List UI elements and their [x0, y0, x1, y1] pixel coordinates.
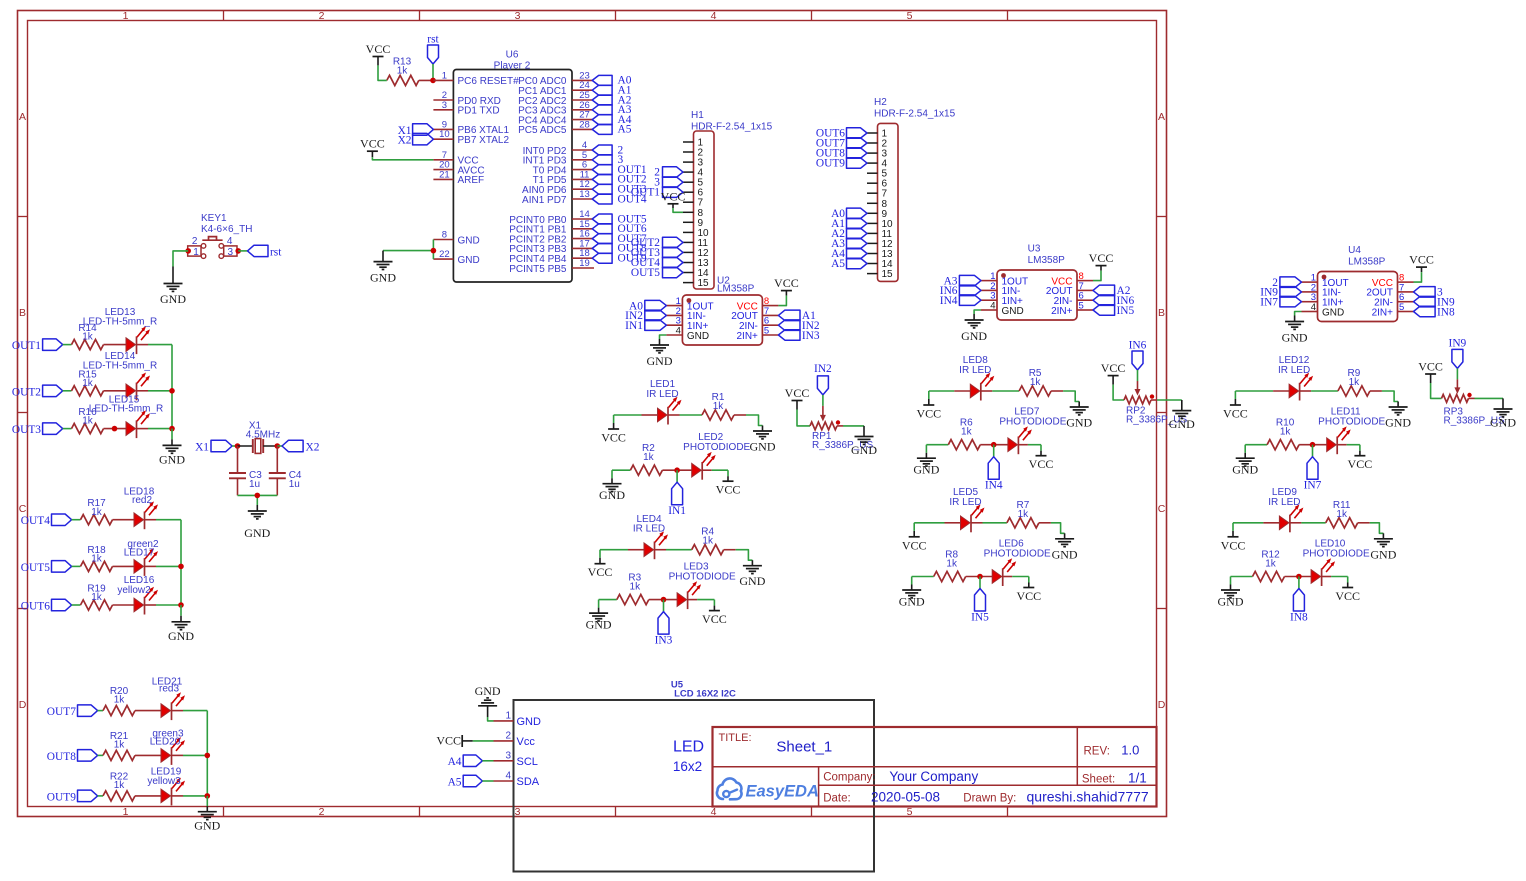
svg-text:VCC: VCC [1223, 407, 1248, 421]
svg-text:H2: H2 [874, 97, 887, 108]
wire R6 to LED7 [980, 444, 1008, 446]
svg-text:A5: A5 [618, 124, 632, 136]
ground at RP3 [1490, 398, 1516, 429]
svg-text:OUT9: OUT9 [47, 791, 76, 803]
wire green2 to bus [145, 565, 157, 567]
svg-text:GND: GND [1169, 417, 1195, 431]
svg-text:1: 1 [505, 710, 511, 721]
port A3 at U3 [944, 275, 981, 287]
svg-text:15: 15 [882, 269, 894, 280]
svg-text:1k: 1k [91, 507, 103, 518]
wire VCC to H1 pin 8 [673, 208, 683, 212]
port IN8 [1290, 589, 1308, 624]
wire RP3 to ground [1469, 397, 1475, 399]
svg-text:A5: A5 [448, 776, 462, 788]
svg-text:IN4: IN4 [985, 480, 1003, 492]
resistor R8 1k [934, 550, 966, 582]
wire OUT2 to R15 [63, 390, 72, 392]
svg-text:VCC: VCC [902, 538, 927, 552]
resistor R13 1k [387, 57, 436, 86]
svg-text:VCC: VCC [716, 483, 741, 497]
ground at OUT1-3 group [171, 429, 173, 440]
power VCC at LED1 row [601, 423, 626, 445]
svg-text:5: 5 [907, 806, 913, 818]
border frame [18, 10, 1167, 818]
wire U4 pin 4 to ground [1295, 312, 1302, 316]
svg-text:IR LED: IR LED [959, 365, 991, 376]
ground at R2 row [599, 478, 625, 502]
wire RP1 to ground [837, 425, 843, 427]
svg-text:GND: GND [1385, 416, 1411, 430]
potentiometer RP1 R_3386P_US [810, 420, 873, 451]
svg-text:GND: GND [159, 452, 185, 466]
svg-text:1k: 1k [397, 66, 409, 77]
junction bus OUT9 [205, 793, 211, 799]
svg-text:LED-TH-5mm_R: LED-TH-5mm_R [89, 404, 163, 415]
svg-text:VCC: VCC [1409, 253, 1434, 267]
svg-text:2: 2 [319, 10, 325, 22]
svg-text:GND: GND [244, 526, 270, 540]
svg-text:10: 10 [439, 129, 450, 140]
power VCC at RP1 [785, 386, 810, 410]
svg-text:1k: 1k [1280, 427, 1292, 438]
resistor R15 1k [72, 369, 104, 396]
U6 right pins [509, 70, 594, 274]
wire OUT7 to R20 [98, 710, 103, 712]
power VCC at LED8 row [916, 399, 941, 421]
wire A5 to U5 pin 4 [482, 780, 493, 782]
LED LED18 [124, 487, 158, 530]
port IN2 at U2 [625, 310, 666, 322]
svg-text:LM358P: LM358P [717, 284, 755, 295]
svg-text:1k: 1k [91, 592, 103, 603]
svg-text:X2: X2 [306, 442, 320, 454]
U6 left pins [433, 70, 519, 266]
port A5 at H2 [831, 258, 867, 270]
svg-text:OUT1: OUT1 [631, 187, 660, 199]
wire bus OUT4-OUT6 [180, 520, 182, 605]
port A4 at U6 [592, 114, 632, 126]
crystal X1 4.5MHz [238, 421, 281, 454]
port OUT5 at H1 [631, 267, 683, 279]
svg-text:PHOTODIODE: PHOTODIODE [984, 549, 1051, 560]
svg-text:VCC: VCC [1016, 589, 1041, 603]
port A1 at H2 [831, 218, 867, 230]
svg-text:1k: 1k [1030, 377, 1042, 388]
wire R12 to LED10 [1285, 576, 1312, 578]
svg-text:LCD 16X2 I2C: LCD 16X2 I2C [674, 689, 736, 700]
wire LED1 to R1 [668, 414, 680, 416]
power VCC at LED10 [1335, 583, 1360, 604]
port OUT6 [21, 599, 72, 612]
port OUT1 at H1 [631, 187, 683, 199]
resistor R19 1k [81, 584, 113, 611]
port OUT2 at H1 [631, 237, 683, 249]
svg-text:VCC: VCC [1335, 589, 1360, 603]
wire R22 to LED19 [135, 795, 161, 797]
wire junction to port IN3 [663, 600, 665, 612]
svg-text:C: C [1158, 503, 1166, 515]
power VCC at U6 pin 7 [360, 137, 385, 158]
potentiometer RP2 R_3386P_US [1124, 394, 1187, 425]
svg-text:VCC: VCC [1348, 457, 1373, 471]
ground at R12 row [1218, 585, 1244, 609]
svg-text:LED17: LED17 [124, 548, 155, 559]
wire LED8 to R5 [981, 390, 993, 392]
junction at KEY1 pin 3 [235, 248, 241, 254]
power VCC at LED11 [1348, 451, 1373, 472]
svg-text:1k: 1k [114, 739, 126, 750]
svg-text:5: 5 [907, 10, 913, 22]
module U5 LCD 16X2 I2C [494, 679, 875, 871]
resistor R1 1k [702, 392, 734, 420]
wire R3 to LED3 [649, 599, 677, 601]
photodiode LED10 [1303, 539, 1370, 587]
ground at R10 row [1232, 453, 1258, 477]
wire bus OUT1-OUT3 [171, 345, 173, 429]
svg-text:GND: GND [458, 255, 480, 266]
svg-text:IR LED: IR LED [1268, 497, 1300, 508]
resistor R20 1k [103, 686, 135, 716]
wire LED10 to VCC [1322, 576, 1332, 578]
junction at IN7 [1310, 442, 1316, 448]
svg-text:GND: GND [458, 235, 480, 246]
svg-text:1: 1 [193, 247, 199, 258]
svg-text:LED20: LED20 [150, 737, 181, 748]
wire LED2 to VCC [702, 469, 712, 471]
ground at OUT7-9 group [206, 796, 208, 806]
junction at crystal pin 1 [235, 443, 241, 449]
svg-text:GND: GND [1066, 416, 1092, 430]
svg-text:IR LED: IR LED [633, 524, 665, 535]
svg-text:1k: 1k [91, 554, 103, 565]
port A3 at U6 [592, 104, 632, 116]
photodiode LED7 [999, 407, 1066, 455]
port IN9 at U4 [1260, 287, 1301, 299]
svg-text:3: 3 [515, 10, 521, 22]
svg-text:C: C [19, 503, 27, 515]
junction at KEY1 pin 1 [185, 248, 191, 254]
LED LED1 IR LED [646, 379, 681, 424]
port OUT8 at U6 [592, 243, 647, 255]
port OUT7 [47, 705, 98, 718]
port OUT7 at U6 [592, 233, 647, 245]
power VCC at LED5 row [902, 531, 927, 553]
svg-text:A5: A5 [831, 258, 845, 270]
svg-text:1k: 1k [82, 416, 94, 427]
LED LED19 [147, 767, 185, 806]
LED LED5 IR LED [949, 487, 984, 532]
wire green3 to bus [172, 754, 184, 756]
junction bus OUT3 [169, 426, 175, 432]
port rst at KEY1 [248, 245, 283, 258]
wire LED9 to R11 [1290, 522, 1302, 524]
resistor R4 1k [692, 527, 724, 555]
wire OUT8 to R21 [98, 754, 103, 756]
wire OUT4 to R17 [72, 519, 81, 521]
svg-text:GND: GND [1052, 547, 1078, 561]
svg-text:1/1: 1/1 [1128, 771, 1147, 786]
svg-text:EasyEDA: EasyEDA [746, 783, 819, 801]
ground at R6 row [913, 453, 939, 477]
svg-text:rst: rst [270, 246, 282, 258]
svg-text:U4: U4 [1348, 245, 1361, 256]
wire R4 to ground [724, 549, 736, 551]
svg-text:Date:: Date: [823, 793, 851, 805]
wire OUT9 to R22 [98, 795, 103, 797]
resistor R10 1k [1267, 418, 1299, 450]
svg-text:VCC: VCC [360, 137, 385, 151]
ground at U4 [1282, 316, 1308, 345]
svg-text:GND: GND [475, 684, 501, 698]
svg-text:1k: 1k [713, 401, 725, 412]
resistor R11 1k [1326, 500, 1358, 528]
svg-text:AIN1 PD7: AIN1 PD7 [522, 195, 567, 206]
wire junction to port IN1 [676, 470, 678, 482]
port OUT4 [21, 514, 72, 527]
port OUT3 at U6 [592, 184, 647, 196]
svg-text:H1: H1 [691, 110, 704, 121]
svg-text:3: 3 [442, 100, 447, 111]
svg-text:2: 2 [319, 806, 325, 818]
wire ground to R10 [1245, 444, 1267, 446]
LED LED8 IR LED [959, 355, 994, 400]
svg-text:VCC: VCC [661, 189, 686, 203]
port 2 at H1 [654, 167, 683, 179]
junction at R16 output [112, 426, 118, 432]
wire LED19 to bus [172, 795, 184, 797]
port OUT9 at U6 [592, 253, 647, 265]
wire LED4 to R4 [655, 549, 667, 551]
svg-text:1k: 1k [82, 378, 94, 389]
svg-text:yellow3: yellow3 [147, 776, 181, 787]
junction bus OUT2 [169, 388, 175, 394]
svg-text:Your Company: Your Company [889, 769, 978, 784]
svg-text:SDA: SDA [517, 776, 540, 788]
op-amp U3 LM358P [981, 244, 1093, 321]
port X2 at crystal [282, 440, 320, 453]
svg-text:PD1 TXD: PD1 TXD [458, 106, 500, 117]
title block [713, 727, 1157, 807]
svg-text:1k: 1k [946, 559, 958, 570]
port 3 at H1 [654, 177, 683, 189]
svg-text:5: 5 [1399, 302, 1404, 313]
svg-text:GND: GND [1370, 547, 1396, 561]
svg-text:4: 4 [711, 10, 717, 22]
EasyEDA logo [717, 778, 819, 800]
port X1 at crystal [195, 440, 232, 453]
port A1 at U6 [592, 85, 632, 97]
svg-text:1: 1 [442, 70, 447, 81]
svg-text:VCC: VCC [588, 565, 613, 579]
port OUT2 [12, 385, 63, 398]
potentiometer RP3 R_3386P_US [1442, 393, 1505, 427]
LED LED12 IR LED [1278, 355, 1313, 400]
svg-text:1k: 1k [630, 582, 642, 593]
svg-text:3: 3 [228, 247, 234, 258]
svg-text:IN8: IN8 [1290, 612, 1308, 624]
wire ground to R12 [1231, 576, 1253, 578]
port IN2 at RP1 [814, 363, 832, 395]
svg-text:IN7: IN7 [1304, 480, 1322, 492]
svg-text:qureshi.shahid7777: qureshi.shahid7777 [1027, 789, 1149, 805]
svg-text:IN3: IN3 [802, 330, 820, 342]
svg-text:4: 4 [711, 806, 717, 818]
port OUT6 at U6 [592, 223, 647, 235]
svg-text:Drawn By:: Drawn By: [963, 793, 1016, 805]
svg-text:AREF: AREF [458, 175, 485, 186]
power VCC at LED7 [1029, 451, 1054, 472]
svg-text:19: 19 [579, 258, 590, 269]
port OUT4 at H1 [631, 257, 683, 269]
svg-text:Company:: Company: [823, 772, 875, 784]
svg-text:GND: GND [1232, 463, 1258, 477]
wire junction to port IN5 [979, 577, 981, 589]
svg-text:red3: red3 [159, 684, 179, 695]
power VCC at LED4 row [588, 558, 613, 580]
port OUT5 at U6 [592, 213, 647, 225]
port A1 at U2 [778, 310, 816, 322]
wire LED21 to bus [172, 710, 184, 712]
svg-text:Sheet:: Sheet: [1082, 774, 1115, 786]
wire IN6 wiper [1137, 370, 1139, 381]
wire A4 to U5 pin 3 [482, 760, 493, 762]
power VCC at U3 pin 8 [1089, 251, 1114, 271]
power VCC at RP3 [1418, 360, 1443, 384]
svg-text:GND: GND [1282, 331, 1308, 345]
port IN3 at U2 [778, 330, 820, 342]
power VCC at LED6 [1016, 583, 1041, 604]
photodiode LED6 [984, 539, 1051, 587]
ground at U5 pin 1 [475, 684, 501, 717]
photodiode LED11 [1318, 407, 1385, 455]
LED LED21 [152, 677, 185, 721]
svg-text:IR LED: IR LED [646, 389, 678, 400]
port A3 at H2 [831, 238, 867, 250]
wire VCC to LED8 [929, 390, 955, 392]
svg-text:IN6: IN6 [1129, 339, 1147, 351]
svg-text:OUT5: OUT5 [21, 562, 50, 574]
svg-text:SCL: SCL [517, 756, 538, 768]
svg-text:22: 22 [439, 249, 450, 260]
svg-text:yellow2: yellow2 [117, 585, 151, 596]
svg-text:GND: GND [687, 331, 709, 342]
svg-text:PC5 ADC5: PC5 ADC5 [518, 125, 567, 136]
port OUT1 at U6 [592, 164, 647, 176]
svg-text:1u: 1u [249, 479, 260, 490]
wire R1 to ground [734, 414, 746, 416]
wire crystal to X2 port [277, 445, 282, 447]
wire LED5 to R7 [971, 522, 983, 524]
port A0 at H2 [831, 208, 867, 220]
svg-text:PHOTODIODE: PHOTODIODE [1303, 549, 1370, 560]
port IN6 at RP2 [1129, 339, 1147, 370]
wire ground to R3 [599, 599, 617, 601]
svg-text:5: 5 [1079, 301, 1084, 312]
ground at U2 [647, 339, 673, 368]
capacitor C4 1u [269, 446, 302, 490]
resistor R9 1k [1338, 368, 1370, 396]
op-amp U2 LM358P [666, 276, 778, 346]
svg-text:PHOTODIODE: PHOTODIODE [1318, 417, 1385, 428]
svg-text:GND: GND [1322, 307, 1344, 318]
port OUT9 [47, 790, 98, 803]
wire KEY1 pin3 to rst port [238, 250, 247, 252]
ground at R9 [1385, 402, 1411, 430]
junction at crystal pin 2 [275, 443, 281, 449]
wire R7 to ground [1039, 522, 1051, 524]
wire LED6 to VCC [1003, 576, 1013, 578]
port A4 at H2 [831, 248, 867, 260]
wire LED3 to VCC [688, 599, 698, 601]
power VCC at LED9 row [1221, 531, 1246, 553]
ground at R3 row [586, 608, 612, 632]
svg-text:4: 4 [676, 326, 681, 337]
port OUT8 [47, 750, 98, 763]
svg-text:1: 1 [123, 10, 129, 22]
port IN3 [655, 612, 673, 647]
svg-text:GND: GND [1218, 595, 1244, 609]
svg-text:GND: GND [647, 354, 673, 368]
wire IN2 wiper [822, 395, 824, 406]
wire LED14 to bus [137, 390, 149, 392]
svg-text:IN1: IN1 [625, 320, 643, 332]
ground at RP1 [851, 426, 877, 457]
ground at R7 [1052, 533, 1078, 561]
wire R20 to LED21 [135, 710, 161, 712]
resistor R2 1k [630, 443, 662, 475]
svg-text:VCC: VCC [1101, 361, 1126, 375]
wire R15 to LED14 [104, 390, 127, 392]
port OUT1 [12, 339, 63, 352]
resistor R22 1k [103, 771, 135, 801]
svg-text:OUT3: OUT3 [12, 424, 41, 436]
ground at R4 [739, 560, 765, 588]
svg-text:U6: U6 [506, 50, 519, 61]
port A5 at U6 [592, 124, 632, 136]
wire U2 pin 4 to ground [660, 335, 667, 339]
wire R21 to green3 [135, 754, 161, 756]
svg-text:IN9: IN9 [1449, 337, 1467, 349]
port OUT7 at H2 [816, 138, 867, 150]
svg-text:1: 1 [123, 806, 129, 818]
svg-text:28: 28 [579, 119, 590, 130]
svg-text:GND: GND [160, 292, 186, 306]
port IN4 at U3 [940, 295, 981, 307]
svg-text:1u: 1u [289, 479, 300, 490]
svg-text:B: B [1158, 307, 1165, 319]
ground at RP2 [1169, 400, 1195, 431]
port IN8 at U4 [1414, 306, 1456, 318]
port OUT2 at U6 [592, 174, 647, 186]
svg-text:GND: GND [750, 440, 776, 454]
wire ground to R2 [612, 469, 630, 471]
svg-text:OUT2: OUT2 [12, 386, 41, 398]
svg-text:PHOTODIODE: PHOTODIODE [669, 572, 736, 583]
power VCC at LED12 row [1223, 399, 1248, 421]
wire R14 to LED13 [104, 344, 127, 346]
svg-text:VCC: VCC [1221, 538, 1246, 552]
ground at crystal [244, 505, 270, 540]
port IN9 at U4 [1414, 296, 1456, 308]
wire VCC to U3 pin 8 [1093, 271, 1101, 281]
svg-text:2IN+: 2IN+ [1051, 306, 1073, 317]
port A0 at U6 [592, 75, 632, 87]
resistor R5 1k [1019, 368, 1051, 396]
wire VCC to RP1 [797, 410, 810, 426]
svg-text:1k: 1k [1018, 509, 1030, 520]
svg-text:IN5: IN5 [971, 612, 989, 624]
